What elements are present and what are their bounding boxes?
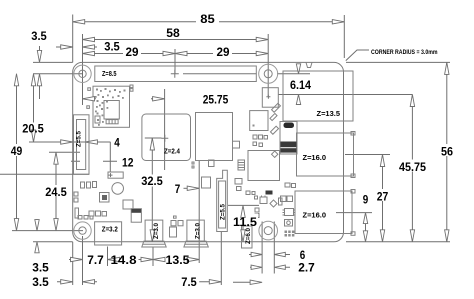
svg-text:14.8: 14.8: [111, 253, 137, 267]
svg-text:25.75: 25.75: [203, 92, 229, 106]
svg-text:CORNER RADIUS = 3.0mm: CORNER RADIUS = 3.0mm: [371, 49, 438, 56]
svg-text:49: 49: [11, 144, 23, 158]
pmic small parts row: [81, 182, 85, 188]
dim 24.5 line: [55, 152, 57, 230]
arrows dim 85: [73, 20, 85, 24]
arrows dim 20.5: [31, 74, 35, 86]
wifi striped bar: [106, 120, 118, 124]
ext line y151.6: [49, 151, 80, 153]
chip4: [248, 151, 280, 181]
svg-text:Z=8.5: Z=8.5: [102, 71, 117, 78]
gpio center cross: [171, 70, 179, 78]
bits between hdmi and audio: [171, 221, 176, 226]
arrows dim 3.5 top: [61, 45, 73, 49]
arrows dim 27: [380, 155, 384, 167]
arrows dim 6.14: [296, 64, 300, 74]
tiny parts nw of wifi: [88, 88, 91, 91]
arrows dim 25.75: [83, 97, 95, 101]
soc cross: [161, 135, 168, 142]
svg-text:7: 7: [175, 182, 181, 196]
arrows dim 7.7: [71, 257, 83, 261]
arrows dim 56: [445, 62, 449, 74]
top edge notch: [306, 62, 312, 67]
svg-text:56: 56: [441, 145, 453, 159]
svg-text:Z=16.0: Z=16.0: [303, 213, 327, 220]
arrows dim 24.5: [54, 152, 58, 164]
dim 56 line: [446, 62, 448, 241]
mounting hole top-right: [259, 64, 278, 83]
tiny marks right of wifi: [130, 85, 133, 88]
ext line board bottom edge right: [346, 241, 450, 243]
svg-text:11.5: 11.5: [233, 215, 257, 229]
small module left: [108, 172, 123, 178]
dim 2.7 shafts: [250, 266, 290, 268]
svg-text:29: 29: [217, 45, 230, 59]
ext line board left edge bottom: [72, 242, 74, 285]
arrows dim 3.5 bottom row: [61, 280, 73, 284]
dim 45.75 line: [411, 95, 413, 242]
dim 58 line: [83, 39, 269, 41]
ext line y205.4: [228, 204, 259, 206]
ext line board top edge right: [346, 61, 450, 63]
ext line x274.3: [273, 222, 275, 274]
bottom connector Z=6.0: [242, 226, 253, 248]
svg-text:29: 29: [126, 45, 139, 59]
arrows dim 4: [61, 140, 73, 144]
dim 6 shafts: [249, 254, 290, 256]
dim 32.5 line: [145, 138, 162, 242]
arrows dim 2.7: [251, 265, 262, 269]
dim 27 line: [382, 155, 384, 242]
dim 9 line: [365, 213, 367, 242]
striped tiny rect: [238, 160, 245, 170]
ext line hole c/l x82.5 bottom: [82, 236, 84, 285]
svg-text:24.5: 24.5: [45, 185, 67, 199]
arrows dim 14.8 right / 13.5: [141, 257, 153, 261]
dim 13.5 line: [153, 259, 199, 261]
svg-text:7.5: 7.5: [181, 275, 197, 289]
svg-text:Z=5.5: Z=5.5: [77, 130, 83, 147]
caps row mid: [253, 135, 257, 139]
svg-text:3.5: 3.5: [32, 260, 49, 274]
tiny trio: [89, 211, 94, 216]
gpio header Z=8.5: [95, 66, 256, 82]
svg-text:6.14: 6.14: [290, 78, 311, 92]
arrow dim 7: [187, 186, 199, 190]
dim 3.5 bottom row shafts: [57, 281, 97, 283]
dim 6.14 shafts: [298, 64, 300, 106]
svg-text:45.75: 45.75: [399, 160, 426, 174]
arrows dim 6: [251, 252, 262, 256]
bits above micro usb: [78, 216, 82, 220]
ext line hole to ethernet y73.8: [277, 73, 310, 75]
svg-text:20.5: 20.5: [22, 122, 44, 136]
ext line usb1 c/l y154.5: [345, 154, 390, 156]
svg-text:Z=3.2: Z=3.2: [102, 226, 118, 233]
arrows dim 29 left: [83, 51, 95, 55]
wifi pads: [95, 88, 126, 126]
dim 3.5 horiz top shafts: [56, 46, 97, 48]
dim 3.5 vert top-left shafts: [39, 46, 41, 99]
arrows dim 49: [14, 74, 18, 86]
dark component stack: [280, 122, 297, 155]
svg-text:3.5: 3.5: [32, 275, 49, 289]
svg-text:4: 4: [114, 136, 120, 150]
mounting hole bottom-left: [74, 222, 91, 239]
ext line board bottom edge left: [33, 241, 73, 243]
bottom right cluster: [260, 197, 267, 204]
svg-text:7.7: 7.7: [87, 253, 104, 267]
svg-text:Z=5.5: Z=5.5: [221, 203, 227, 220]
usb connector tabs: [351, 132, 355, 136]
arrows dim 29 right: [175, 51, 187, 55]
dim 25.75 shafts: [83, 98, 165, 100]
dim 20.5 line: [33, 74, 35, 142]
board outline: [73, 62, 344, 241]
audio jack Z=3.0: [187, 220, 204, 241]
cap with bands: [131, 209, 141, 223]
svg-text:Z=3.0: Z=3.0: [154, 222, 160, 239]
wifi module: [93, 86, 130, 127]
arrows dim 45.75: [410, 95, 414, 107]
arrows dim 3.5 vert bottom-left: [35, 220, 39, 231]
ext line hole c/l left top: [82, 34, 84, 105]
ext line hdmi c/l x153: [152, 247, 154, 267]
ext line camera c/l: [220, 232, 222, 286]
corner radius leader: [346, 50, 369, 61]
mounting hole bottom-right: [259, 221, 278, 240]
pmic circle cap: [112, 183, 124, 195]
ext line usb2 c/l y212.6: [336, 212, 372, 214]
ext line ethernet c/l y94.5: [278, 94, 412, 96]
svg-text:12: 12: [122, 155, 134, 169]
svg-text:85: 85: [200, 12, 215, 26]
ext line gpio midline: [174, 49, 176, 74]
usb hub chip: [196, 113, 233, 161]
chip right of hub: [250, 111, 268, 131]
usb hub side tab: [233, 141, 240, 148]
svg-text:9: 9: [363, 193, 369, 207]
arrow bottom right segment: [250, 280, 262, 284]
gpio centerline to right hole: [183, 73, 256, 75]
dim 12 line: [71, 142, 117, 172]
ext line hole c/l y73.8 left: [33, 73, 83, 75]
dsi connector Z=5.5: [74, 115, 90, 175]
ext line usb-pwr c/l x107.5: [107, 247, 109, 267]
ext line left board edge top: [72, 15, 74, 63]
ext line hole c/l right top: [267, 34, 269, 96]
arrows dim 9: [363, 213, 367, 224]
hdmi connector Z=3.0: [145, 220, 163, 241]
ext line y174.2: [0, 173, 89, 175]
dim 29 right line: [175, 53, 268, 55]
wifi sub square: [104, 101, 119, 120]
arrows dim 58: [83, 37, 95, 41]
dim 3.5 vert bottom-left shafts: [36, 219, 38, 253]
ext line x262.1: [261, 222, 263, 274]
ext line bottom hole c/l left: [12, 230, 83, 232]
dim 49 line: [16, 74, 18, 231]
pmic inductor: [100, 193, 110, 203]
svg-text:Z=13.5: Z=13.5: [317, 111, 341, 118]
svg-text:27: 27: [377, 189, 389, 203]
dim 7 shaft: [184, 187, 200, 189]
tiny parts left edge: [74, 192, 78, 196]
svg-text:Z=2.4: Z=2.4: [164, 149, 180, 156]
soc Z=2.4: [142, 114, 191, 161]
diagonal parts: [272, 103, 281, 112]
bits between soc and camera: [209, 160, 215, 167]
ext line right board edge top: [343, 15, 345, 58]
ext line board top edge left: [33, 61, 73, 63]
dim 85 line: [73, 21, 345, 23]
dim 11.5 line: [242, 205, 244, 241]
svg-text:Z=16.0: Z=16.0: [303, 155, 327, 162]
usb stack 1 Z=16.0: [297, 133, 354, 176]
arrows dim 11.5: [241, 205, 245, 217]
dim 7.7 shafts: [69, 259, 120, 261]
bits right of camera top: [235, 179, 242, 185]
dim 29 left line: [83, 53, 176, 55]
ext line x164.6: [164, 89, 166, 170]
micro usb power Z=3.2: [95, 222, 122, 245]
camera connector Z=5.5: [217, 170, 228, 231]
dim 7.5 line: [199, 281, 221, 283]
svg-text:Z=6.0: Z=6.0: [246, 227, 252, 244]
poe header: [262, 88, 278, 108]
mounting hole top-left: [74, 65, 91, 82]
ext line audio c/l: [198, 161, 200, 263]
svg-text:3.5: 3.5: [31, 29, 47, 43]
ext line y138.5: [29, 141, 111, 143]
svg-text:3.5: 3.5: [104, 39, 120, 53]
arrows dim 32.5: [150, 138, 154, 150]
wifi small rect bottom-left: [95, 116, 100, 123]
svg-text:13.5: 13.5: [166, 253, 190, 267]
bits left of usb2: [285, 183, 290, 187]
svg-text:58: 58: [166, 26, 180, 40]
crystal below hub: [202, 177, 211, 188]
usb stack 2 Z=16.0: [295, 191, 352, 234]
svg-text:32.5: 32.5: [141, 174, 163, 188]
dim 14.8 line: [108, 259, 154, 261]
svg-text:Z=3.0: Z=3.0: [196, 222, 202, 239]
svg-text:2.7: 2.7: [298, 261, 315, 275]
arrows dim 3.5 vert top-left: [37, 50, 41, 62]
dim row right segment: [233, 281, 258, 283]
arrow dim 7.5: [209, 280, 221, 284]
ethernet Z=13.5: [283, 71, 353, 121]
